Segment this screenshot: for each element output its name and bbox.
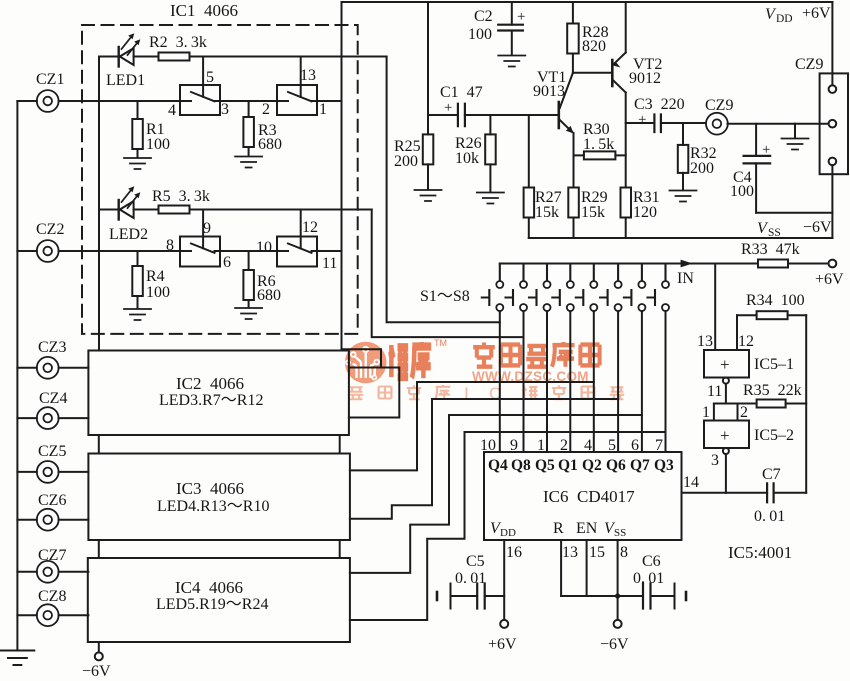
wire S1 to IC6 pin10	[499, 311, 501, 452]
svg-text:+: +	[720, 426, 730, 445]
svg-text:R33 47k: R33 47k	[741, 241, 800, 258]
pushbutton S3	[529, 264, 551, 312]
wire CZ1 row (pins 4-3 / 2-1 row)	[59, 100, 342, 102]
wire S6 to IC6 pin5	[617, 311, 619, 452]
svg-text:Q8: Q8	[511, 457, 531, 474]
svg-text:5: 5	[206, 69, 214, 86]
wire S4 to IC6 pin2	[569, 311, 571, 452]
svg-text:LED3.R7～R12: LED3.R7～R12	[159, 392, 263, 409]
wire Q2 branch row	[350, 382, 594, 470]
connector CZ5	[37, 461, 59, 483]
svg-text:1: 1	[702, 404, 710, 421]
ground R25	[415, 190, 442, 201]
svg-text:C1 47: C1 47	[440, 84, 483, 101]
node R/EN/VSS junction	[615, 593, 620, 598]
wire IC2-IC3 link left	[98, 435, 100, 454]
svg-text:13: 13	[300, 67, 316, 84]
svg-text:820: 820	[582, 38, 606, 55]
resistor R33 47k	[758, 260, 788, 268]
capacitor C1 47	[428, 104, 490, 126]
connector CZ6	[37, 509, 59, 531]
svg-text:+6V: +6V	[802, 5, 831, 22]
svg-text:Q1: Q1	[558, 457, 578, 474]
svg-text:100: 100	[468, 26, 492, 43]
svg-text:14: 14	[683, 474, 699, 491]
IC4 4066 box	[88, 558, 350, 642]
wire R2 to LED1 row right	[190, 56, 387, 58]
wire feedback vertical	[805, 315, 807, 493]
ground R6	[235, 308, 262, 319]
IC3 4066 box	[88, 454, 350, 541]
wire audio bus vertical (pin1/pin11 to C1 and IC2)	[341, 2, 343, 349]
wire S7 to IC6 pin6	[641, 311, 643, 452]
wire IC1 pin12 control	[300, 210, 302, 249]
svg-text:+: +	[720, 355, 730, 374]
wire IC6 pin8 VSS	[617, 540, 619, 620]
label IC6 Q outputs	[488, 457, 674, 474]
ground R26	[477, 193, 504, 204]
svg-text:+: +	[638, 112, 646, 128]
svg-text:R2 3. 3k: R2 3. 3k	[149, 34, 207, 51]
connector CZ3	[37, 357, 59, 379]
ground main (bottom left)	[1, 651, 35, 666]
analog switch IC1-b (pins 13/2/1)	[277, 85, 317, 115]
svg-text:8: 8	[620, 544, 628, 561]
svg-text:DD: DD	[500, 527, 516, 539]
analog switch IC1-a (pins 5/4/3)	[180, 85, 220, 115]
svg-text:+: +	[762, 142, 770, 158]
connector CZ2	[37, 240, 59, 262]
wire LED1 anode column	[98, 57, 100, 351]
wire IC6 pin13 R	[560, 540, 562, 596]
wire VDD rail into socket	[831, 2, 833, 85]
svg-text:Q4: Q4	[488, 457, 508, 474]
capacitor C4 100	[744, 124, 833, 213]
svg-text:8: 8	[166, 237, 174, 254]
wire VT1 emitter down	[573, 133, 575, 188]
connector CZ9 socket	[820, 73, 848, 174]
wire pin11 tee	[714, 384, 757, 404]
node IC5-2 output bubble	[723, 448, 729, 454]
svg-text:15: 15	[589, 544, 605, 561]
wire LED2 row to S2	[372, 210, 524, 338]
wire S2 to IC6 pin9	[523, 311, 525, 452]
pushbutton S4	[552, 264, 574, 312]
wire CZ9 to socket	[728, 123, 829, 125]
svg-text:12: 12	[302, 219, 318, 236]
terminal +6V (IC6)	[500, 620, 508, 628]
svg-text:C2: C2	[474, 8, 493, 25]
svg-text:IC3 4066: IC3 4066	[176, 479, 244, 498]
svg-text:R5 3. 3k: R5 3. 3k	[152, 188, 210, 205]
wire R/EN bus	[561, 595, 643, 597]
svg-text:1. 5k: 1. 5k	[583, 136, 614, 153]
svg-text:4: 4	[584, 437, 592, 454]
wire IC1 pin5 control	[202, 57, 204, 97]
wire IC1 pin9 control	[202, 210, 204, 249]
wire IC3-IC4 link right	[339, 540, 341, 558]
svg-text:IC6 CD4017: IC6 CD4017	[543, 487, 635, 506]
connector CZ8	[37, 604, 59, 626]
wire VT2 emitter to rail	[625, 2, 627, 53]
wire IC4 to -6V	[98, 642, 100, 652]
resistor R25 200	[423, 115, 434, 190]
IC6 CD4017 box	[484, 452, 682, 540]
LED LED2	[99, 186, 159, 219]
IC1 4066 dashed enclosure	[82, 25, 358, 334]
svg-text:LED1: LED1	[106, 72, 145, 89]
svg-text:CZ8: CZ8	[38, 588, 66, 605]
wire CZ6	[17, 519, 88, 521]
svg-text:100: 100	[730, 183, 754, 200]
wire socket bottom to VSS	[831, 165, 833, 238]
svg-text:Q2: Q2	[582, 457, 602, 474]
resistor R5 3.3k	[159, 206, 190, 214]
wire Q3 branch row	[350, 432, 666, 620]
svg-text:IC2 4066: IC2 4066	[176, 374, 244, 393]
capacitor C5 0.01	[437, 584, 504, 609]
svg-text:Q7: Q7	[630, 457, 650, 474]
gate IC5-2	[704, 421, 749, 449]
svg-text:CZ7: CZ7	[38, 547, 66, 564]
analog switch IC1-c (pins 9/8/6)	[180, 237, 220, 267]
wire IC5-1 pin12 input	[736, 315, 738, 350]
resistor R1 100	[132, 101, 143, 158]
wire LED1 row to S1	[387, 57, 500, 323]
svg-text:CZ1: CZ1	[36, 71, 64, 88]
svg-text:EN: EN	[576, 520, 598, 537]
resistor R28 820	[567, 2, 579, 73]
svg-text:R: R	[553, 520, 564, 537]
svg-text:+6V: +6V	[488, 636, 517, 653]
analog switch IC1-d (pins 12/10/11)	[277, 237, 317, 267]
svg-text:1: 1	[537, 437, 545, 454]
svg-text:10k: 10k	[455, 150, 479, 167]
resistor R2 3.3k	[159, 53, 190, 61]
svg-text:100: 100	[146, 136, 170, 153]
svg-text:5: 5	[608, 437, 616, 454]
node IC5-1 output bubble	[723, 378, 729, 384]
svg-text:0. 01: 0. 01	[455, 570, 486, 587]
gate IC5-1	[704, 350, 749, 378]
svg-text:CZ3: CZ3	[38, 339, 66, 356]
svg-text:IN: IN	[677, 270, 694, 287]
pushbutton S2	[506, 264, 528, 312]
wire IC5-2 pin3 to clock row	[725, 454, 727, 493]
ground R4	[124, 309, 151, 320]
ground R32	[670, 191, 697, 202]
svg-text:9: 9	[203, 220, 211, 237]
svg-text:12: 12	[738, 333, 754, 350]
svg-text:CZ9: CZ9	[795, 56, 823, 73]
resistor R6 680	[243, 251, 254, 308]
connector CZ4	[37, 407, 59, 429]
resistor R4 100	[132, 251, 143, 309]
svg-text:100: 100	[146, 284, 170, 301]
connector CZ1	[37, 90, 59, 112]
wire CZ5	[17, 471, 88, 473]
wire CZ3	[17, 367, 88, 369]
svg-text:10: 10	[480, 437, 496, 454]
svg-text:−6V: −6V	[803, 219, 832, 236]
svg-text:SS: SS	[614, 527, 626, 539]
wire CZ2 to bus	[17, 250, 36, 252]
wire IC1 pin13 control	[300, 57, 302, 97]
wire IC6 pin16 VDD	[503, 540, 505, 620]
svg-text:+: +	[444, 100, 452, 116]
svg-text:2: 2	[262, 101, 270, 118]
svg-text:TM: TM	[434, 338, 447, 348]
svg-text:R4: R4	[146, 268, 165, 285]
svg-text:680: 680	[257, 287, 281, 304]
svg-text:7: 7	[655, 437, 663, 454]
watermark main title	[389, 342, 431, 378]
pushbutton S1	[482, 264, 504, 312]
svg-text:13: 13	[697, 333, 713, 350]
svg-text:SS: SS	[768, 227, 781, 239]
pushbutton S5	[576, 264, 598, 312]
terminal +6V (R33)	[829, 260, 837, 268]
svg-text:120: 120	[633, 204, 657, 221]
pushbutton S6	[600, 264, 622, 312]
svg-text:1: 1	[319, 101, 327, 118]
wire C1 input feed	[427, 2, 429, 115]
svg-text:13: 13	[562, 544, 578, 561]
svg-text:Q5: Q5	[535, 457, 555, 474]
svg-text:0. 01: 0. 01	[754, 508, 785, 525]
IC2 4066 box	[88, 351, 349, 436]
svg-text:IC1 4066: IC1 4066	[170, 1, 238, 20]
svg-text:−6V: −6V	[82, 663, 111, 680]
svg-text:3: 3	[221, 101, 229, 118]
wire IN bus with switches	[500, 263, 758, 265]
resistor R27 15k	[524, 115, 535, 238]
wire CZ7	[17, 571, 88, 573]
svg-text:CZ5: CZ5	[38, 443, 66, 460]
wire R33 to +6V	[788, 263, 829, 265]
svg-text:CZ6: CZ6	[38, 492, 66, 509]
svg-text:6: 6	[631, 437, 639, 454]
transistor VT2 9012	[612, 53, 625, 93]
svg-text:9012: 9012	[629, 70, 661, 87]
wire CZ1 to bus	[17, 100, 36, 102]
svg-text:15k: 15k	[581, 204, 605, 221]
wire VT2 collector down	[625, 93, 627, 188]
svg-text:CZ2: CZ2	[36, 221, 64, 238]
capacitor C6 0.01	[643, 584, 686, 609]
svg-text:Q3: Q3	[654, 457, 674, 474]
svg-text:IC4 4066: IC4 4066	[175, 578, 243, 597]
svg-text:I: I	[464, 384, 469, 403]
resistor R31 120	[621, 188, 632, 239]
svg-text:+6V: +6V	[815, 271, 844, 288]
transistor VT1 9013	[559, 73, 574, 134]
svg-text:200: 200	[394, 153, 418, 170]
capacitor C7 0.01	[767, 483, 806, 502]
wire top VDD rail	[342, 1, 833, 3]
svg-text:C5: C5	[466, 553, 485, 570]
ground C2	[498, 56, 525, 67]
wire IC2-IC3 link right	[339, 435, 341, 454]
wire S3 to IC6 pin1	[546, 311, 548, 452]
svg-text:IC5–1: IC5–1	[754, 356, 794, 373]
wire Q6 branch row	[350, 399, 618, 519]
resistor R29 15k	[568, 188, 579, 239]
wire R28 to VT2 base	[573, 72, 612, 74]
capacitor C2 100	[498, 2, 523, 55]
LED LED1	[99, 33, 159, 66]
connector CZ7	[37, 561, 59, 583]
svg-text:680: 680	[258, 136, 282, 153]
resistor R30 1.5k	[574, 151, 626, 159]
svg-text:6: 6	[223, 254, 231, 271]
wire Q7 branch row	[350, 415, 642, 573]
capacitor C3 220	[626, 115, 707, 133]
wire S5 to IC6 pin4	[593, 311, 595, 452]
svg-text:2: 2	[740, 404, 748, 421]
wire S8 to IC6 pin7	[665, 311, 667, 452]
svg-text:16: 16	[506, 544, 522, 561]
pushbutton S7	[624, 264, 646, 312]
svg-text:2: 2	[560, 437, 568, 454]
svg-text:9013: 9013	[533, 83, 565, 100]
wire IC5-1 pin13 input	[714, 264, 716, 351]
svg-text:C7: C7	[762, 466, 781, 483]
resistor R26 10k	[485, 115, 496, 192]
pushbutton S8	[648, 264, 670, 312]
wire R5 to LED2 row right	[190, 209, 372, 211]
wire IC5-2 pin1 input	[713, 404, 715, 421]
wire audio bus jog to IC2	[342, 349, 400, 417]
wire CZ2 row (pins 8-6 / 10-11 row)	[59, 250, 342, 252]
svg-text:IC5:4001: IC5:4001	[728, 543, 792, 562]
svg-text:15k: 15k	[535, 204, 559, 221]
svg-text:CZ4: CZ4	[39, 390, 67, 407]
wire IC6 pin15 EN	[586, 540, 588, 596]
svg-text:3: 3	[711, 452, 719, 469]
wire IC5-2 pin2 input	[737, 404, 739, 421]
resistor R34 100	[737, 311, 806, 319]
watermark slogan	[349, 385, 451, 399]
svg-text:R35 22k: R35 22k	[743, 382, 802, 399]
svg-text:9: 9	[510, 437, 518, 454]
ground R1	[124, 158, 151, 169]
resistor R32 200	[678, 123, 689, 190]
resistor R3 680	[243, 101, 254, 156]
svg-text:10: 10	[256, 239, 272, 256]
svg-text:4: 4	[168, 102, 176, 119]
svg-text:+: +	[517, 9, 525, 25]
wire C1 to VT1 base	[465, 114, 558, 116]
svg-text:C6: C6	[642, 553, 661, 570]
resistor R35 22k	[757, 400, 807, 408]
svg-text:Q6: Q6	[606, 457, 626, 474]
svg-text:−6V: −6V	[600, 636, 629, 653]
wire left bus CZ1-CZ8 common	[16, 101, 18, 650]
svg-text:C3 220: C3 220	[634, 96, 685, 113]
watermark logo	[345, 342, 387, 384]
svg-text:LED5.R19～R24: LED5.R19～R24	[156, 596, 268, 613]
svg-text:200: 200	[690, 160, 714, 177]
wire CZ8	[17, 614, 88, 616]
connector CZ9 (plug)	[706, 113, 728, 135]
terminal -6V (IC4)	[95, 652, 103, 660]
ground R3	[235, 157, 262, 168]
svg-text:IC5–2: IC5–2	[754, 427, 794, 444]
svg-text:11: 11	[707, 383, 722, 400]
svg-text:LED4.R13～R10: LED4.R13～R10	[157, 498, 269, 515]
svg-text:0. 01: 0. 01	[633, 570, 664, 587]
svg-text:CZ9: CZ9	[705, 97, 733, 114]
svg-text:S1～S8: S1～S8	[420, 288, 470, 305]
wire IC6 pin14 clock row	[682, 492, 768, 494]
ground near CZ9	[782, 124, 809, 150]
svg-text:LED2: LED2	[109, 226, 148, 243]
arrow IN	[681, 260, 693, 268]
svg-text:11: 11	[322, 255, 337, 272]
terminal -6V (IC6)	[614, 620, 622, 628]
wire IC3-IC4 link left	[98, 540, 100, 558]
wire CZ4	[17, 417, 88, 419]
wire VSS rail	[529, 237, 833, 239]
svg-text:DD: DD	[776, 13, 793, 25]
svg-text:R34 100: R34 100	[746, 292, 805, 309]
